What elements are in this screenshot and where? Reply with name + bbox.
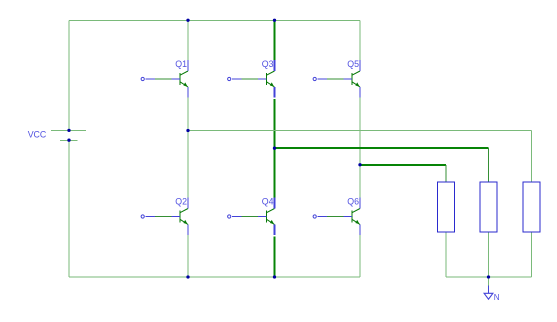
wire phase B bus horizontal xyxy=(275,147,489,149)
pin circle Q4 base xyxy=(228,215,231,218)
wire phase C bus horizontal xyxy=(360,164,446,166)
wire resistor 2 bottom xyxy=(488,232,490,277)
pin circle Q2 base xyxy=(141,215,144,218)
wire Q3 base xyxy=(242,78,259,80)
svg-text:VCC: VCC xyxy=(28,130,47,140)
wire neutral rail xyxy=(446,276,532,278)
resistor load 3 xyxy=(523,182,540,232)
svg-text:Q6: Q6 xyxy=(347,197,359,207)
label N xyxy=(494,293,500,302)
label Q1 xyxy=(175,59,187,69)
junction top rail / Q1 column xyxy=(186,19,189,22)
transistor Q1 xyxy=(172,60,189,98)
wire column Q4 lower (bus) xyxy=(274,237,276,278)
wire resistor 3 bottom xyxy=(531,232,533,277)
transistor Q6 xyxy=(344,198,361,236)
pin stub Q6 base port xyxy=(317,216,327,218)
junction phase A bus / Q1 column xyxy=(186,129,189,132)
transistor Q3 xyxy=(258,60,275,98)
wire left rail upper xyxy=(68,20,70,130)
battery VCC positive plate xyxy=(51,129,86,131)
svg-text:N: N xyxy=(494,293,500,302)
junction bottom rail / Q4 column xyxy=(273,275,276,278)
wire left rail lower xyxy=(68,140,70,277)
pin stub Q2 base port xyxy=(145,216,155,218)
svg-text:Q4: Q4 xyxy=(262,197,274,207)
wire column Q5-Q6 middle xyxy=(359,98,361,198)
label Q3 xyxy=(262,59,274,69)
svg-text:Q5: Q5 xyxy=(347,59,359,69)
pin stub Q1 base port xyxy=(145,78,155,80)
wire resistor 1 bottom xyxy=(445,232,447,277)
label Q6 xyxy=(347,197,359,207)
power port N xyxy=(484,286,493,300)
transistor Q2 xyxy=(172,198,189,236)
wire phase A drop to resistor xyxy=(531,131,533,183)
svg-text:Q2: Q2 xyxy=(175,197,187,207)
wire Q5 base xyxy=(327,78,344,80)
junction VCC positive xyxy=(67,129,70,132)
label Q5 xyxy=(347,59,359,69)
junction VCC negative xyxy=(67,139,70,142)
wire bottom rail xyxy=(69,276,360,278)
pin circle Q5 base xyxy=(313,77,316,80)
junction node N xyxy=(487,275,490,278)
wire column Q5 upper xyxy=(359,20,361,60)
pin circle Q1 base xyxy=(141,77,144,80)
pin stub Q3 base port xyxy=(232,78,242,80)
junction phase B bus / Q3 column xyxy=(273,147,276,150)
wire column Q2 lower xyxy=(187,235,189,277)
pin circle Q6 base xyxy=(313,215,316,218)
label Q2 xyxy=(175,197,187,207)
label VCC xyxy=(28,130,47,140)
wire node N stub xyxy=(488,277,490,286)
pin stub Q5 base port xyxy=(317,78,327,80)
wire column Q6 lower xyxy=(359,235,361,277)
battery VCC negative plate xyxy=(60,139,78,141)
junction phase C bus / Q5 column xyxy=(358,163,361,166)
wire column Q3 upper (bus) xyxy=(274,20,276,62)
wire Q4 base xyxy=(242,216,259,218)
wire phase B drop to resistor xyxy=(488,148,490,182)
svg-text:Q3: Q3 xyxy=(262,59,274,69)
wire column Q1-Q2 middle xyxy=(187,98,189,198)
wire Q1 base xyxy=(155,78,172,80)
svg-text:Q1: Q1 xyxy=(175,59,187,69)
wire Q2 base xyxy=(155,216,172,218)
wire phase C drop to resistor xyxy=(445,165,447,182)
resistor load 1 xyxy=(438,182,455,232)
transistor Q5 xyxy=(344,60,361,98)
junction top rail / Q3 column xyxy=(273,19,276,22)
wire phase A bus horizontal xyxy=(188,130,532,132)
junction bottom rail / Q2 column xyxy=(186,275,189,278)
pin circle Q3 base xyxy=(228,77,231,80)
wire column Q3-Q4 middle (bus) xyxy=(274,99,276,200)
pin stub Q4 base port xyxy=(232,216,242,218)
wire top rail xyxy=(69,19,360,21)
wire Q6 base xyxy=(327,216,344,218)
transistor Q4 xyxy=(258,198,275,236)
label Q4 xyxy=(262,197,274,207)
resistor load 2 xyxy=(480,182,497,232)
wire column Q1 upper xyxy=(187,20,189,60)
